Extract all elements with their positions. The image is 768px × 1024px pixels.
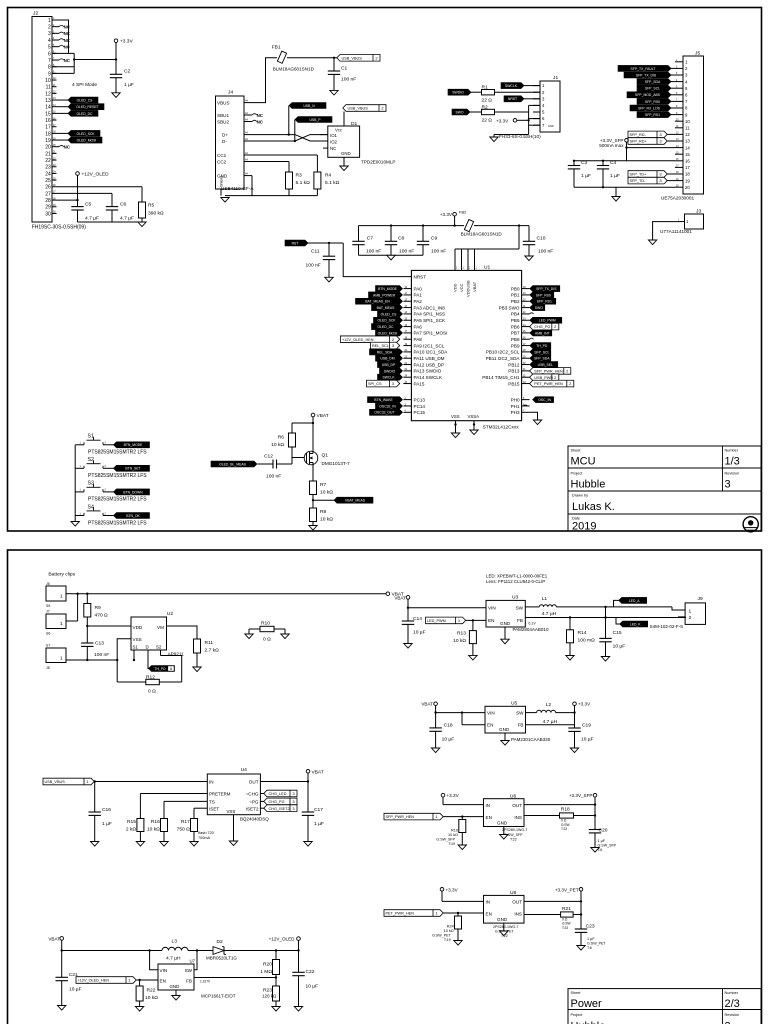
wire clip3 to C13 <box>71 659 117 661</box>
resistor R9 470R <box>86 594 88 604</box>
wire U2 VSS <box>117 639 131 682</box>
ground <box>190 842 198 847</box>
svg-text:VDD: VDD <box>133 625 143 630</box>
svg-text:10 µF: 10 µF <box>442 736 455 742</box>
net label LED_K <box>620 621 648 627</box>
svg-text:+3.3V: +3.3V <box>446 887 459 892</box>
svg-text:PA1: PA1 <box>414 293 423 298</box>
svg-text:PB14 TIM15_CH1: PB14 TIM15_CH1 <box>482 375 520 380</box>
page 2 sheet border <box>8 550 762 1024</box>
power +3.3V <box>114 39 118 43</box>
wire Q1 source to R7 <box>312 465 314 481</box>
svg-text:PAM2804AAB010: PAM2804AAB010 <box>513 627 549 632</box>
svg-text:BQ24040DSQ: BQ24040DSQ <box>240 817 269 822</box>
svg-text:J7: J7 <box>46 610 50 614</box>
svg-text:SBU2: SBU2 <box>217 120 229 125</box>
svg-text:C5: C5 <box>85 202 92 208</box>
svg-text:R6: R6 <box>278 435 285 441</box>
svg-text:25: 25 <box>45 178 51 184</box>
resistor R17 750R <box>191 819 198 832</box>
hier label PET_PWR_HEN <box>384 910 443 917</box>
capacitor C15 10uF <box>605 607 607 639</box>
svg-text:S7: S7 <box>46 644 50 648</box>
svg-text:10 kΩ: 10 kΩ <box>448 833 458 837</box>
svg-text:FH19SC-30S-0.5SH(09): FH19SC-30S-0.5SH(09) <box>32 225 87 231</box>
svg-text:100 nF: 100 nF <box>538 249 553 255</box>
ground <box>71 522 79 527</box>
ground <box>138 222 146 227</box>
svg-text:VSSA: VSSA <box>468 414 480 419</box>
svg-text:OSC_IN: OSC_IN <box>538 398 551 402</box>
wire to IN <box>94 781 207 783</box>
svg-text:20: 20 <box>45 145 51 151</box>
net label NRST <box>504 96 524 102</box>
svg-text:10 µF: 10 µF <box>581 736 594 742</box>
ground <box>304 842 312 847</box>
wire U2 VM to R11 <box>167 626 198 639</box>
svg-text:PA7 SPI1_MOSI: PA7 SPI1_MOSI <box>414 331 448 336</box>
svg-text:AMB_INT: AMB_INT <box>535 331 550 335</box>
svg-text:GND: GND <box>170 984 180 989</box>
svg-text:LED: XPEBWT-L1-0000-00FE1: LED: XPEBWT-L1-0000-00FE1 <box>486 574 548 579</box>
net label SFP_TX_DIS <box>624 72 671 78</box>
capacitor C3 1uF <box>573 161 575 166</box>
net label SFP_SCL <box>530 349 551 355</box>
svg-text:C20: C20 <box>599 828 608 834</box>
svg-text:10: 10 <box>685 119 690 124</box>
ground <box>112 93 120 98</box>
wire U7 GND <box>175 990 177 996</box>
net label SWCLK <box>378 374 403 380</box>
svg-text:100 nF: 100 nF <box>306 262 321 268</box>
svg-text:19: 19 <box>685 178 690 183</box>
svg-text:CHG_LED: CHG_LED <box>269 792 287 796</box>
ground <box>91 842 99 847</box>
capacitor C21 10uF <box>56 976 68 978</box>
svg-text:NC: NC <box>330 146 336 151</box>
svg-text:5: 5 <box>48 45 51 51</box>
svg-text:R14: R14 <box>578 630 587 636</box>
svg-text:NC: NC <box>257 119 264 124</box>
net label OSC32_OUT <box>370 409 403 415</box>
wire RST to NRST <box>343 243 411 277</box>
svg-text:Ifast=720: Ifast=720 <box>198 831 214 835</box>
svg-text:PB11 I2C2_SDA: PB11 I2C2_SDA <box>486 356 521 361</box>
wire 3.3V bus <box>359 225 465 227</box>
svg-text:SFP_RS1: SFP_RS1 <box>645 113 660 117</box>
svg-text:PB13: PB13 <box>508 369 520 374</box>
svg-text:C12: C12 <box>264 454 273 460</box>
svg-text:R4: R4 <box>325 173 332 179</box>
net label OLED_SCK <box>57 132 72 134</box>
svg-text:PA8: PA8 <box>414 337 423 342</box>
svg-text:SWDIO: SWDIO <box>452 91 464 95</box>
net label REL_SCL <box>371 342 400 349</box>
ground <box>451 433 459 438</box>
no-connect marks J2 <box>57 26 60 28</box>
svg-text:10 µF: 10 µF <box>413 629 426 635</box>
ground <box>281 634 289 639</box>
svg-text:VIN: VIN <box>488 606 496 611</box>
svg-text:REL_SDA: REL_SDA <box>377 350 393 354</box>
wire FB <box>194 977 276 979</box>
capacitor C1 100nF <box>333 58 335 71</box>
svg-text:PB10 I2C2_SCL: PB10 I2C2_SCL <box>486 350 520 355</box>
svg-text:1: 1 <box>689 608 692 614</box>
svg-text:1.227V: 1.227V <box>200 980 211 984</box>
svg-text:GND: GND <box>497 917 508 922</box>
svg-text:PA15: PA15 <box>414 381 425 386</box>
net label OLED_DC <box>372 324 403 330</box>
svg-text:~PG: ~PG <box>249 799 259 804</box>
svg-text:PRETERM: PRETERM <box>209 792 231 797</box>
net label USB_DP <box>378 362 403 368</box>
capacitor C6 4.7uF <box>106 206 118 208</box>
wire J2 pin1/6/8/9 bus <box>52 20 69 53</box>
svg-text:PH3: PH3 <box>511 410 520 415</box>
svg-text:9: 9 <box>48 71 51 77</box>
capacitor C20 1uF <box>589 829 601 831</box>
wire CC1 to R4 <box>252 154 317 156</box>
svg-text:4: 4 <box>48 38 51 44</box>
resistor R4 5.1k <box>314 172 321 189</box>
ground <box>525 256 533 261</box>
svg-text:SPI_CS: SPI_CS <box>368 382 382 386</box>
hier label SFP_PWR_HEN <box>384 813 443 820</box>
svg-text:5.1 kΩ: 5.1 kΩ <box>296 180 311 186</box>
capacitor C14 10uF <box>407 608 409 621</box>
svg-text:PB3 SWO: PB3 SWO <box>499 305 520 310</box>
svg-text:NC: NC <box>257 113 264 118</box>
svg-text:CC1: CC1 <box>217 153 227 158</box>
svg-text:OLED_BL_MEAS: OLED_BL_MEAS <box>219 462 246 466</box>
svg-text:21: 21 <box>45 151 51 157</box>
svg-text:1 µF: 1 µF <box>587 937 595 941</box>
net label OLED_BL_MEAS <box>211 461 257 467</box>
svg-text:20: 20 <box>685 185 690 190</box>
resistor R19 10k <box>461 817 463 820</box>
svg-text:PB1: PB1 <box>511 293 520 298</box>
svg-text:PTS825SM15SMTR2 LFS: PTS825SM15SMTR2 LFS <box>88 450 147 456</box>
power +12V_OLED <box>76 172 80 176</box>
svg-text:SFP_RD-: SFP_RD- <box>630 133 647 137</box>
svg-text:PA13 SWDIO: PA13 SWDIO <box>414 369 442 374</box>
net label SFP_SDA <box>637 79 671 85</box>
capacitor C16 1uF <box>94 782 96 813</box>
wire ground rail J4 <box>288 189 290 196</box>
svg-text:Hubble: Hubble <box>571 1021 606 1024</box>
wire R6 branch <box>292 422 313 424</box>
svg-text:RST: RST <box>292 241 299 245</box>
svg-text:2: 2 <box>48 25 51 31</box>
svg-text:SFP_PWR_HEN: SFP_PWR_HEN <box>534 369 563 373</box>
svg-text:MBR0520LT1G: MBR0520LT1G <box>206 955 237 960</box>
svg-text:EN: EN <box>486 912 492 917</box>
svg-text:T:19: T:19 <box>448 842 455 846</box>
svg-text:+3.3V: +3.3V <box>578 702 591 707</box>
svg-text:S6: S6 <box>46 632 50 636</box>
net label USB_PWR <box>530 374 559 381</box>
wire EN tie <box>462 724 485 726</box>
ground <box>245 634 253 639</box>
resistor R8 10k <box>310 508 317 522</box>
svg-text:100 nF: 100 nF <box>399 249 414 255</box>
svg-text:FB: FB <box>517 618 523 623</box>
wire VBAT rail <box>62 950 162 952</box>
svg-text:22: 22 <box>45 158 51 164</box>
svg-text:4.7 µF: 4.7 µF <box>85 216 99 222</box>
svg-text:700mA: 700mA <box>198 836 210 840</box>
wire U8 GND <box>503 923 505 931</box>
svg-text:+3.3V_SFP: +3.3V_SFP <box>569 793 593 798</box>
ground <box>272 1007 280 1012</box>
power +3.3V at U8 <box>440 888 444 892</box>
net label BAT_MEAS <box>372 305 403 311</box>
net label AMB_POWER <box>369 292 403 298</box>
net label OLED_MOSI <box>57 139 72 141</box>
svg-text:VBAT: VBAT <box>312 769 324 775</box>
svg-text:+3.3V: +3.3V <box>447 793 460 798</box>
svg-text:Lukas K.: Lukas K. <box>572 501 615 513</box>
svg-text:SWO: SWO <box>455 110 463 114</box>
svg-text:BLM18AG601SN1D: BLM18AG601SN1D <box>273 67 315 72</box>
wire PH3 to ground <box>530 412 538 420</box>
svg-text:VDDUSB: VDDUSB <box>466 280 471 297</box>
ground <box>431 748 439 753</box>
svg-text:PET_PWR_HEN: PET_PWR_HEN <box>386 912 415 916</box>
svg-text:GND: GND <box>499 727 510 732</box>
svg-text:S4: S4 <box>88 504 94 510</box>
svg-text:LED_PWM: LED_PWM <box>539 319 556 323</box>
hier label CHG_PG <box>260 800 267 802</box>
svg-text:1 MΩ: 1 MΩ <box>260 969 272 975</box>
svg-text:BLM18AG601SN1D: BLM18AG601SN1D <box>461 232 503 237</box>
wire J2 pin27 to C6 <box>57 192 113 194</box>
svg-text:BTN_WAKE: BTN_WAKE <box>374 398 393 402</box>
svg-text:ISET: ISET <box>209 806 219 811</box>
net label OLED_DC <box>57 112 72 114</box>
svg-text:SFP_TD+: SFP_TD+ <box>630 173 648 177</box>
svg-text:22 Ω: 22 Ω <box>482 117 493 123</box>
net label SFP_RX_LOS <box>630 105 671 111</box>
net label SFP_SCL <box>637 85 671 91</box>
svg-text:OLED_DC: OLED_DC <box>76 112 93 116</box>
svg-text:INS: INS <box>514 815 522 820</box>
wire to C3 C4 <box>574 160 675 162</box>
ground <box>501 741 509 746</box>
svg-text:SWO: SWO <box>535 306 543 310</box>
net label USB_N <box>289 103 326 109</box>
wire TS to R16 <box>164 800 207 802</box>
svg-text:0.1V: 0.1V <box>528 622 536 626</box>
svg-text:NRST: NRST <box>414 275 427 280</box>
no-connect PB4 PB8 PH1 <box>530 313 534 314</box>
wire output cap <box>580 901 582 929</box>
svg-text:PA10 I2C1_SDA: PA10 I2C1_SDA <box>414 350 449 355</box>
svg-text:S1: S1 <box>88 434 94 440</box>
svg-text:GND: GND <box>500 621 511 626</box>
page 1 sheet border <box>8 8 762 532</box>
hier label SFP_RD- <box>628 131 667 138</box>
ground <box>309 526 317 531</box>
svg-text:C10: C10 <box>537 235 546 241</box>
svg-text:S2: S2 <box>156 645 162 650</box>
svg-text:VM: VM <box>157 625 164 630</box>
net label BTN_OK <box>114 513 150 519</box>
net label SWDIO <box>380 368 403 374</box>
svg-text:OLED_SCK: OLED_SCK <box>76 132 95 136</box>
svg-text:17: 17 <box>45 125 51 131</box>
svg-text:+3.3V: +3.3V <box>440 212 453 217</box>
hier label CHG_LED <box>260 793 267 795</box>
svg-text:FH33-6S-0.5SH(10): FH33-6S-0.5SH(10) <box>499 134 541 139</box>
svg-text:L3: L3 <box>172 939 178 945</box>
svg-text:IN: IN <box>486 900 491 905</box>
svg-text:NC: NC <box>64 38 71 43</box>
capacitor C5 4.7uF <box>71 206 83 208</box>
svg-text:R7: R7 <box>320 482 327 488</box>
svg-text:PA11 USB_DM: PA11 USB_DM <box>414 356 445 361</box>
svg-text:15: 15 <box>45 111 51 117</box>
net label SFP_RS0 <box>530 292 554 298</box>
resistor R11 2.7k <box>194 639 201 653</box>
net label SPI_CS <box>367 380 400 387</box>
svg-text:100 nF: 100 nF <box>341 77 356 83</box>
svg-text:R13: R13 <box>457 631 466 637</box>
svg-text:PB7: PB7 <box>511 331 520 336</box>
ground <box>160 842 168 847</box>
svg-text:OLED_RESET: OLED_RESET <box>76 105 98 109</box>
wire J2 pin26 to R5 <box>57 186 143 188</box>
capacitor C22 10uF <box>298 951 300 973</box>
svg-text:+12V_OLED_HEN: +12V_OLED_HEN <box>342 338 374 342</box>
svg-text:Sheet: Sheet <box>571 449 582 453</box>
resistor R15 2k <box>137 819 144 832</box>
svg-text:PA3 ADC1_IN8: PA3 ADC1_IN8 <box>414 305 446 310</box>
svg-text:16: 16 <box>685 159 690 164</box>
svg-text:REL_SCL: REL_SCL <box>372 344 389 348</box>
svg-text:USB_DM: USB_DM <box>380 357 394 361</box>
ground <box>136 842 144 847</box>
wire bottom rail J5 <box>574 186 675 188</box>
ground <box>330 90 338 95</box>
svg-text:C2: C2 <box>124 69 131 75</box>
svg-text:CC2: CC2 <box>217 160 227 165</box>
svg-text:PH0: PH0 <box>511 397 520 402</box>
svg-text:OLED_CS: OLED_CS <box>77 98 94 102</box>
svg-text:SW: SW <box>516 711 524 716</box>
wire FB1 to USB_VBUS label <box>287 57 340 59</box>
wire SW rail to J9 <box>556 606 672 608</box>
svg-text:Number: Number <box>725 991 739 995</box>
svg-text:Hubble: Hubble <box>571 479 606 491</box>
svg-text:NC: NC <box>64 31 71 36</box>
svg-text:2 kΩ: 2 kΩ <box>126 827 137 833</box>
net label USB_P <box>295 117 332 123</box>
svg-text:D+: D+ <box>222 133 228 138</box>
wire INS / R21 <box>524 914 561 916</box>
svg-text:SFP_SCL: SFP_SCL <box>645 87 660 91</box>
resistor R16 10k <box>161 819 168 832</box>
svg-text:Project: Project <box>571 472 584 476</box>
svg-text:FB: FB <box>518 723 524 728</box>
wire switch bus <box>74 445 76 522</box>
wire L3 to D2 <box>188 950 213 952</box>
svg-text:C17: C17 <box>314 807 323 813</box>
wire D2 to +12V rail <box>224 950 299 952</box>
svg-text:29: 29 <box>45 205 51 211</box>
ground <box>454 941 462 946</box>
wire VBAT to VIN <box>408 607 486 609</box>
svg-text:10 kΩ: 10 kΩ <box>444 929 454 933</box>
svg-text:PA5 SPI1_SCK: PA5 SPI1_SCK <box>414 318 447 323</box>
svg-text:FB1: FB1 <box>272 45 281 51</box>
power VBAT <box>386 592 390 596</box>
resistor R20 1M <box>275 951 277 960</box>
svg-text:18: 18 <box>685 172 690 177</box>
net label OLED_RESET <box>57 106 72 108</box>
svg-text:FB2: FB2 <box>459 210 467 215</box>
transistor Q1 DMG1013T-7 <box>304 451 318 465</box>
svg-text:USB_N: USB_N <box>303 104 315 108</box>
net label TH_PD <box>530 343 551 349</box>
svg-text:SFP_SDA: SFP_SDA <box>534 357 550 361</box>
ground <box>500 931 508 936</box>
ground <box>404 644 412 649</box>
svg-text:R15: R15 <box>127 819 136 825</box>
svg-text:G:SW_SFP: G:SW_SFP <box>436 837 455 841</box>
svg-text:BTN_OK: BTN_OK <box>126 514 140 518</box>
svg-text:R20: R20 <box>263 962 272 968</box>
wire cap gnd rail <box>359 254 424 256</box>
capacitor C11 100nF <box>328 243 330 256</box>
svg-text:2019: 2019 <box>572 521 596 533</box>
svg-text:4.7 µH: 4.7 µH <box>542 611 557 617</box>
wire VBUS to FB1 <box>252 58 277 103</box>
svg-text:OSC32_IN: OSC32_IN <box>379 404 396 408</box>
svg-text:1: 1 <box>60 621 63 627</box>
hier label USB_VBUS at D1 <box>343 105 386 112</box>
ground <box>221 198 229 203</box>
wire OUT to +3.3V_PET <box>524 900 581 902</box>
net label BAT_MEAS_EN <box>356 298 403 304</box>
svg-text:PAM2301CAAB330: PAM2301CAAB330 <box>511 737 551 742</box>
svg-text:27: 27 <box>45 191 51 197</box>
svg-text:SW: SW <box>185 968 193 973</box>
net label BTN_MODE <box>376 286 403 292</box>
hier label LED_PWM <box>426 617 466 624</box>
svg-text:BTN_SET: BTN_SET <box>125 467 140 471</box>
net label SFP_TX_DIS <box>530 286 560 292</box>
resistor R6 10k <box>289 433 296 447</box>
wire to VIN <box>436 712 485 714</box>
svg-text:PB4: PB4 <box>511 312 520 317</box>
svg-text:USB_VBUS: USB_VBUS <box>45 780 66 784</box>
svg-text:BTN_DOWN: BTN_DOWN <box>123 490 143 494</box>
svg-text:3: 3 <box>725 479 731 491</box>
svg-text:LED_K: LED_K <box>630 622 641 626</box>
svg-text:VBAT: VBAT <box>472 281 477 292</box>
svg-text:SFP_SDA: SFP_SDA <box>645 80 661 84</box>
svg-text:C4: C4 <box>610 160 617 166</box>
net label BTN_SET <box>114 465 150 471</box>
svg-text:13: 13 <box>45 98 51 104</box>
svg-text:SFP_RX_LOS: SFP_RX_LOS <box>638 106 661 110</box>
wire to +3.3V <box>74 59 116 61</box>
svg-text:SFP_TD-: SFP_TD- <box>630 179 647 183</box>
U1 left pins PC13-PC15 <box>403 399 411 401</box>
wire to IN <box>442 900 484 902</box>
